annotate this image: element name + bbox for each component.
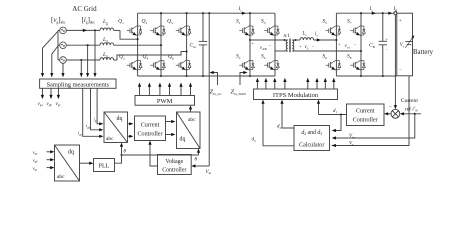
voltage tap wire c [61, 63, 64, 77]
svg-text:S8: S8 [347, 54, 352, 60]
svg-text:Current: Current [356, 109, 375, 115]
svg-text:vL: vL [305, 45, 309, 50]
PWM gate arrows [138, 83, 192, 96]
wire vd to abc transform [166, 120, 176, 123]
current reference wire [400, 112, 421, 115]
wire Vin to calculator [332, 114, 415, 140]
current arrow I1 [242, 12, 246, 15]
wire vgb arrow [47, 158, 55, 161]
wire Vs arrow to calculator [332, 144, 336, 147]
svg-text:−: − [269, 43, 272, 48]
summing junction [391, 109, 400, 118]
wire phase A [66, 29, 137, 39]
svg-text:vga: vga [33, 149, 39, 155]
impedance arrow Zin_rec [210, 71, 218, 85]
secondary bottom rail [336, 75, 396, 77]
sampling measurements box [40, 79, 116, 88]
wire node B to transformer [275, 50, 285, 52]
transistor S8 [350, 59, 365, 72]
svg-text:−: − [399, 69, 402, 74]
svg-text:I1: I1 [238, 7, 243, 12]
svg-text:n:1: n:1 [284, 34, 291, 39]
dq transform box PLL input [55, 145, 80, 181]
svg-text:+: + [299, 43, 302, 48]
svg-text:d2: d2 [277, 125, 282, 130]
Vin sense wire [208, 13, 210, 166]
voltage controller box [158, 155, 192, 175]
svg-text:Zin_DAB: Zin_DAB [231, 89, 247, 96]
svg-text:[vg]abc: [vg]abc [51, 16, 66, 24]
svg-text:−: − [354, 42, 357, 47]
transistor S7 [350, 24, 365, 37]
svg-text:[ig]abc: [ig]abc [82, 16, 96, 24]
node secondary midpoint D [360, 50, 362, 52]
source Vga [60, 27, 67, 34]
current arrow I2 [372, 12, 376, 15]
svg-text:d3: d3 [252, 138, 257, 143]
PLL box [94, 159, 115, 172]
voltage tap wire b [50, 46, 58, 77]
transistor Q6 [176, 59, 191, 72]
wire vq to abc transform [166, 133, 176, 136]
inductor Lg phase A [100, 28, 114, 30]
dc link top rail [138, 12, 275, 14]
svg-text:+: + [399, 19, 402, 24]
svg-text:vga: vga [38, 102, 44, 107]
transistor S4 [264, 59, 279, 72]
svg-text:Ls: Ls [302, 32, 308, 37]
current controller box [135, 116, 166, 141]
rectifier leg 1 wire [137, 13, 139, 76]
svg-text:Vin: Vin [206, 170, 212, 175]
wire modulation to PWM [189, 105, 192, 112]
voltage tap wire a [41, 31, 58, 77]
svg-text:vgb: vgb [47, 102, 53, 107]
wire dq to PLL [80, 162, 94, 165]
wire phase B [66, 44, 160, 46]
current arrow IB [388, 12, 392, 15]
node A primary midpoint [249, 39, 251, 41]
calculator box d2 d3 [294, 126, 330, 151]
svg-text:Lg: Lg [102, 19, 108, 25]
svg-text:+: + [338, 42, 341, 47]
svg-text:vAB: vAB [260, 46, 267, 51]
capacitor Cin [199, 13, 207, 76]
svg-text:Voltage: Voltage [165, 159, 183, 165]
svg-text:θ: θ [195, 158, 198, 163]
DAB primary leg 1 wire [249, 13, 251, 76]
svg-text:dq: dq [68, 150, 74, 156]
svg-text:ITPS Modulation: ITPS Modulation [273, 92, 319, 99]
svg-text:S5: S5 [322, 19, 327, 25]
svg-text:CB: CB [369, 43, 376, 49]
theta wire from PLL [115, 143, 124, 164]
transistor Q3 [150, 24, 165, 37]
svg-text:Lg: Lg [102, 37, 108, 43]
inductor Ls [300, 38, 314, 40]
svg-text:−: − [312, 43, 315, 48]
svg-text:S1: S1 [236, 19, 241, 25]
svg-text:d2 and d3: d2 and d3 [301, 130, 322, 136]
transistor S2 [239, 59, 254, 72]
svg-text:+: + [252, 41, 255, 46]
svg-text:AC Grid: AC Grid [72, 5, 97, 13]
svg-text:Lg: Lg [102, 52, 108, 58]
PWM box [135, 96, 195, 106]
wire vgc arrow [47, 166, 55, 169]
wire vga arrow [47, 150, 55, 153]
svg-text:Current: Current [141, 123, 160, 129]
capacitor CB [379, 13, 389, 76]
wire id to controller [128, 122, 134, 125]
wire voltage controller to current controller [148, 141, 157, 167]
svg-text:Sampling measurements: Sampling measurements [46, 81, 109, 88]
svg-text:Battery: Battery [413, 49, 434, 56]
svg-text:PWM: PWM [157, 98, 173, 105]
DAB primary leg 2 wire [274, 13, 276, 76]
node phase A current tap [94, 29, 96, 31]
secondary top rail [336, 12, 396, 14]
neutral bus wire [57, 30, 59, 60]
svg-text:PLL: PLL [99, 163, 110, 169]
rectifier leg 2 wire [160, 13, 162, 76]
transistor S5 [326, 24, 341, 37]
source Vgc [60, 57, 67, 64]
svg-text:Vs: Vs [349, 141, 354, 146]
dc link bottom rail [138, 75, 275, 77]
svg-text:Controller: Controller [353, 118, 378, 124]
svg-text:vgc: vgc [56, 102, 62, 107]
svg-text:Controller: Controller [162, 168, 186, 174]
wire node A to transformer [250, 39, 285, 41]
svg-text:ref i*B: ref i*B [405, 105, 418, 112]
transistor Q1 [127, 24, 142, 37]
sampled current wire ia [97, 88, 103, 125]
svg-text:S2: S2 [236, 54, 241, 60]
svg-text:Q1: Q1 [118, 19, 124, 25]
battery current controller box [347, 104, 385, 126]
wire d1 branch to calculator [332, 115, 341, 133]
node phase B to leg2 [160, 44, 162, 46]
svg-text:vgb: vgb [33, 157, 39, 163]
DAB secondary leg 1 wire [335, 13, 337, 76]
node phase A to leg1 [137, 38, 139, 40]
wire iq to controller [128, 135, 134, 138]
transistor Q4 [150, 59, 165, 72]
transistor S1 [239, 24, 254, 37]
battery terminal [394, 12, 397, 15]
svg-text:igc: igc [78, 130, 83, 136]
svg-text:vgc: vgc [33, 165, 39, 171]
DAB secondary leg 2 wire [360, 13, 362, 76]
svg-text:dq: dq [117, 116, 123, 122]
wire d1 to ITPS [317, 100, 347, 116]
svg-text:abc: abc [188, 117, 196, 123]
svg-text:I2: I2 [369, 7, 374, 12]
wire Vin to voltage controller [191, 164, 209, 167]
svg-text:dq: dq [180, 137, 186, 143]
sampled current wire ib [91, 88, 104, 131]
svg-text:Controller: Controller [137, 132, 162, 138]
svg-text:θ: θ [124, 150, 127, 155]
svg-text:S6: S6 [322, 54, 327, 60]
transistor S3 [264, 24, 279, 37]
label vAB with polarity [252, 41, 272, 52]
svg-text:is: is [315, 32, 318, 37]
label vcd with polarity [338, 42, 357, 50]
sampled current wire ic [83, 88, 104, 138]
svg-text:S4: S4 [261, 54, 266, 60]
wire secondary top to inductor [296, 39, 301, 41]
wire inductor to bridge [314, 38, 337, 41]
battery box [397, 13, 413, 76]
impedance arrow Zin_DAB [240, 71, 248, 85]
wire summing junction to controller [384, 112, 391, 115]
inductor Lg phase C [100, 58, 114, 60]
svg-text:Zin_rec: Zin_rec [210, 89, 223, 96]
sampled voltage output arrows [41, 88, 60, 99]
node phase C to leg3 [186, 50, 188, 52]
node phase B current tap [87, 44, 89, 46]
dq transform box grid current [104, 112, 128, 143]
node phase C current tap [80, 59, 82, 61]
svg-text:Q3: Q3 [142, 19, 148, 25]
svg-text:Vin: Vin [349, 134, 355, 139]
wire d3 to ITPS [261, 100, 294, 146]
battery variable symbol [405, 34, 415, 47]
transistor S6 [326, 59, 341, 72]
svg-text:Q5: Q5 [167, 19, 173, 25]
svg-text:Vs: Vs [400, 43, 405, 48]
rectifier leg 3 wire [186, 13, 188, 76]
current tap wire a [93, 30, 96, 77]
ITPS modulation box [254, 89, 338, 100]
wire d2 to ITPS [280, 100, 294, 128]
current tap wire b [86, 45, 89, 77]
source Vgb [60, 42, 67, 49]
svg-text:S3: S3 [261, 19, 266, 25]
svg-text:Calculator: Calculator [299, 143, 324, 149]
theta wire to abc transform [120, 149, 200, 157]
current tap wire c [80, 60, 83, 77]
svg-text:−: − [389, 104, 392, 110]
ITPS gate arrows [256, 78, 336, 89]
wire phase C [66, 52, 186, 61]
transistor Q2 [127, 59, 142, 72]
svg-text:d1: d1 [333, 109, 338, 114]
svg-text:vcd: vcd [345, 44, 351, 49]
transformer n:1 [283, 39, 296, 53]
node secondary midpoint C [335, 39, 337, 41]
battery voltage sense wire Vs [332, 76, 409, 146]
svg-text:abc: abc [106, 136, 114, 142]
svg-text:−: − [386, 48, 388, 52]
svg-text:S7: S7 [347, 19, 352, 25]
inductor Lg phase B [100, 43, 114, 45]
label vL with polarity [299, 43, 315, 50]
battery current sense wire to summing node [394, 15, 397, 110]
abc transform box modulation [177, 112, 201, 149]
svg-text:abc: abc [57, 174, 65, 180]
wire secondary bottom to bridge [296, 50, 362, 52]
wire source stubs to bus [58, 30, 60, 60]
svg-text:Cin: Cin [190, 43, 197, 49]
svg-text:+: + [386, 38, 388, 42]
transistor Q5 [176, 24, 191, 37]
svg-text:Current: Current [401, 98, 419, 104]
